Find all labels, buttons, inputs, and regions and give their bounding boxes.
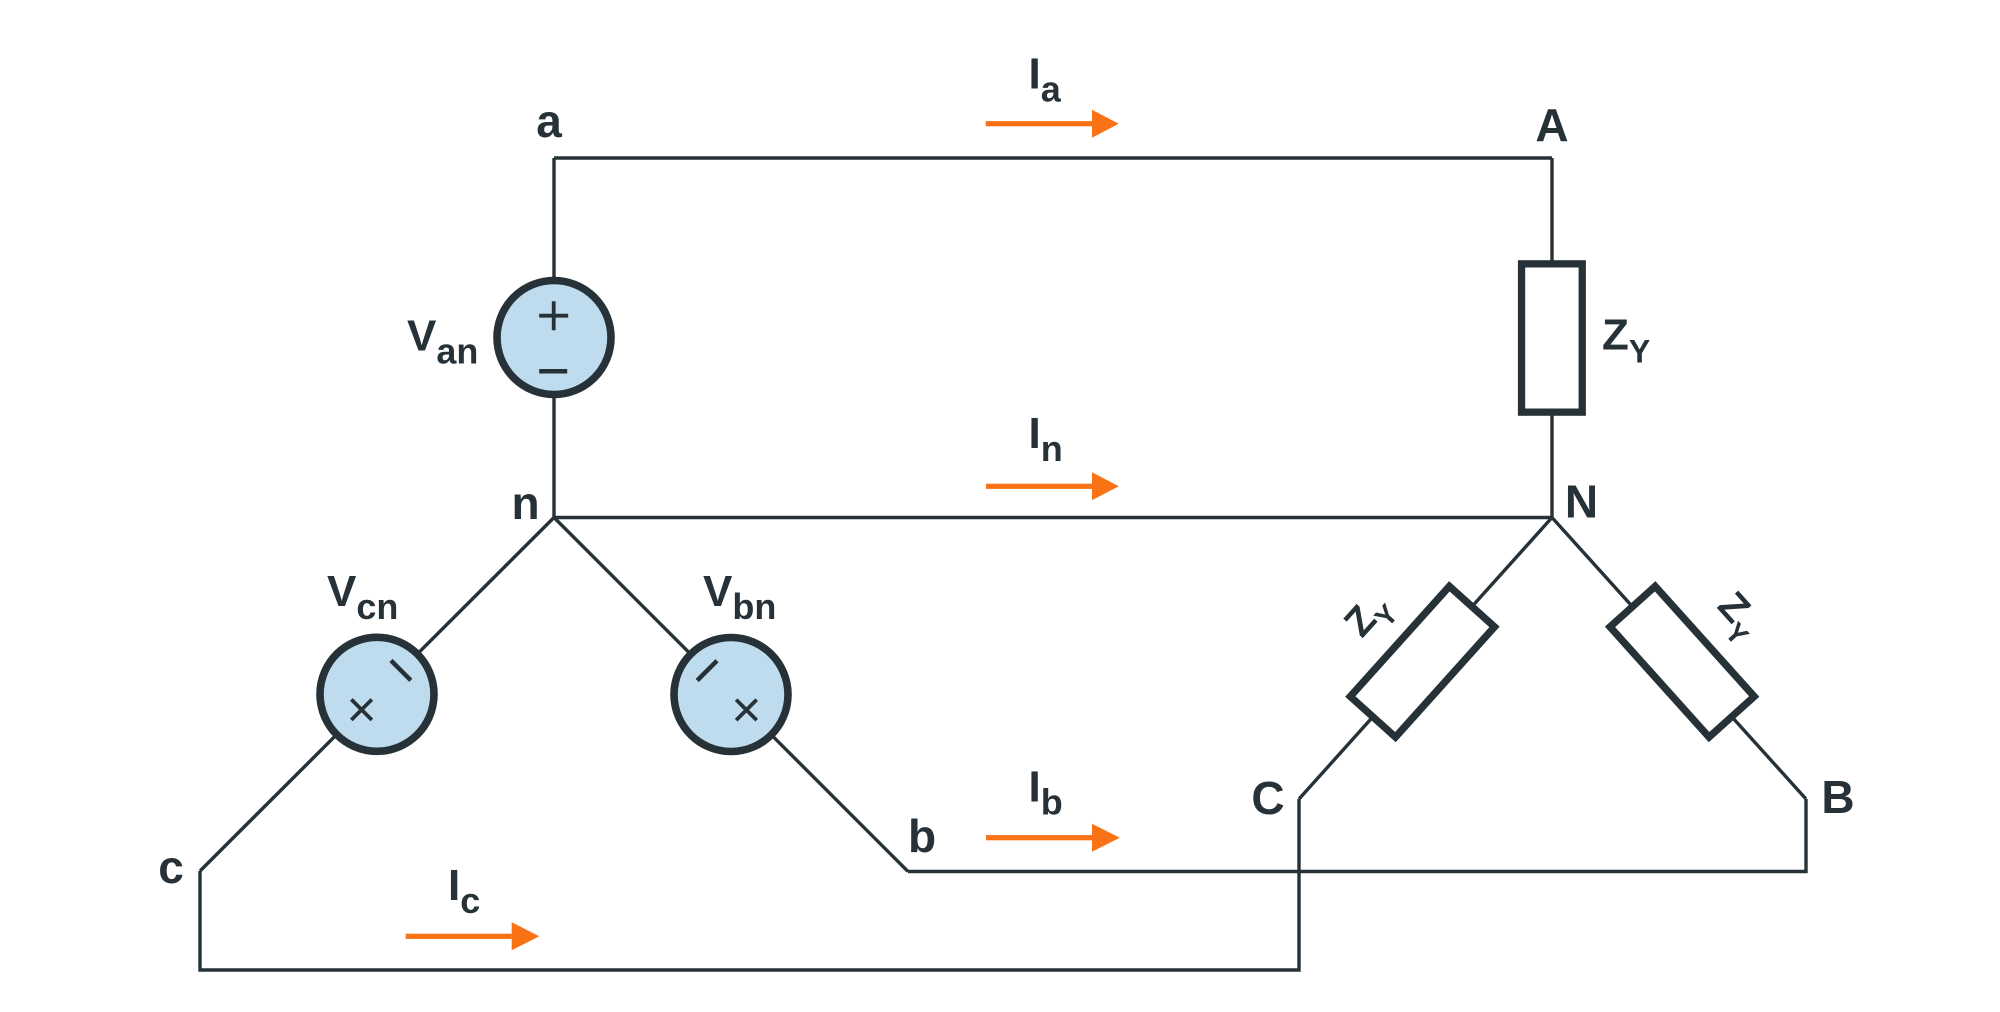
wire a down through Van to n [552,158,555,518]
wire n to b diagonal [554,518,908,872]
voltage source Vcn [296,614,457,775]
current arrow Ic [406,922,540,950]
current arrow In [986,472,1119,500]
svg-text:c: c [158,841,184,893]
wire N to B diagonal [1552,518,1806,800]
voltage source Van [497,281,611,395]
wire n to c diagonal [200,518,554,872]
impedance ZY diagonal (phase B) [1610,586,1754,737]
impedance ZY vertical (phase A) [1522,264,1583,412]
wire a to A (top line) [554,156,1552,159]
svg-text:b: b [908,810,936,862]
svg-text:N: N [1565,476,1598,528]
svg-text:C: C [1251,772,1284,824]
svg-text:n: n [511,477,539,529]
voltage source Vbn [650,614,811,775]
svg-text:A: A [1535,99,1568,151]
wire b to B [908,799,1806,872]
wire A down through ZY to N [1550,158,1553,518]
wire c down and bottom run to C [200,799,1299,970]
svg-text:B: B [1821,771,1854,823]
impedance ZY diagonal (phase C) [1350,586,1494,737]
wire n to N (neutral line) [554,516,1552,519]
current arrow Ia [986,110,1119,138]
svg-text:a: a [536,95,562,147]
wire N to C diagonal [1299,518,1552,800]
current arrow Ib [986,824,1120,852]
